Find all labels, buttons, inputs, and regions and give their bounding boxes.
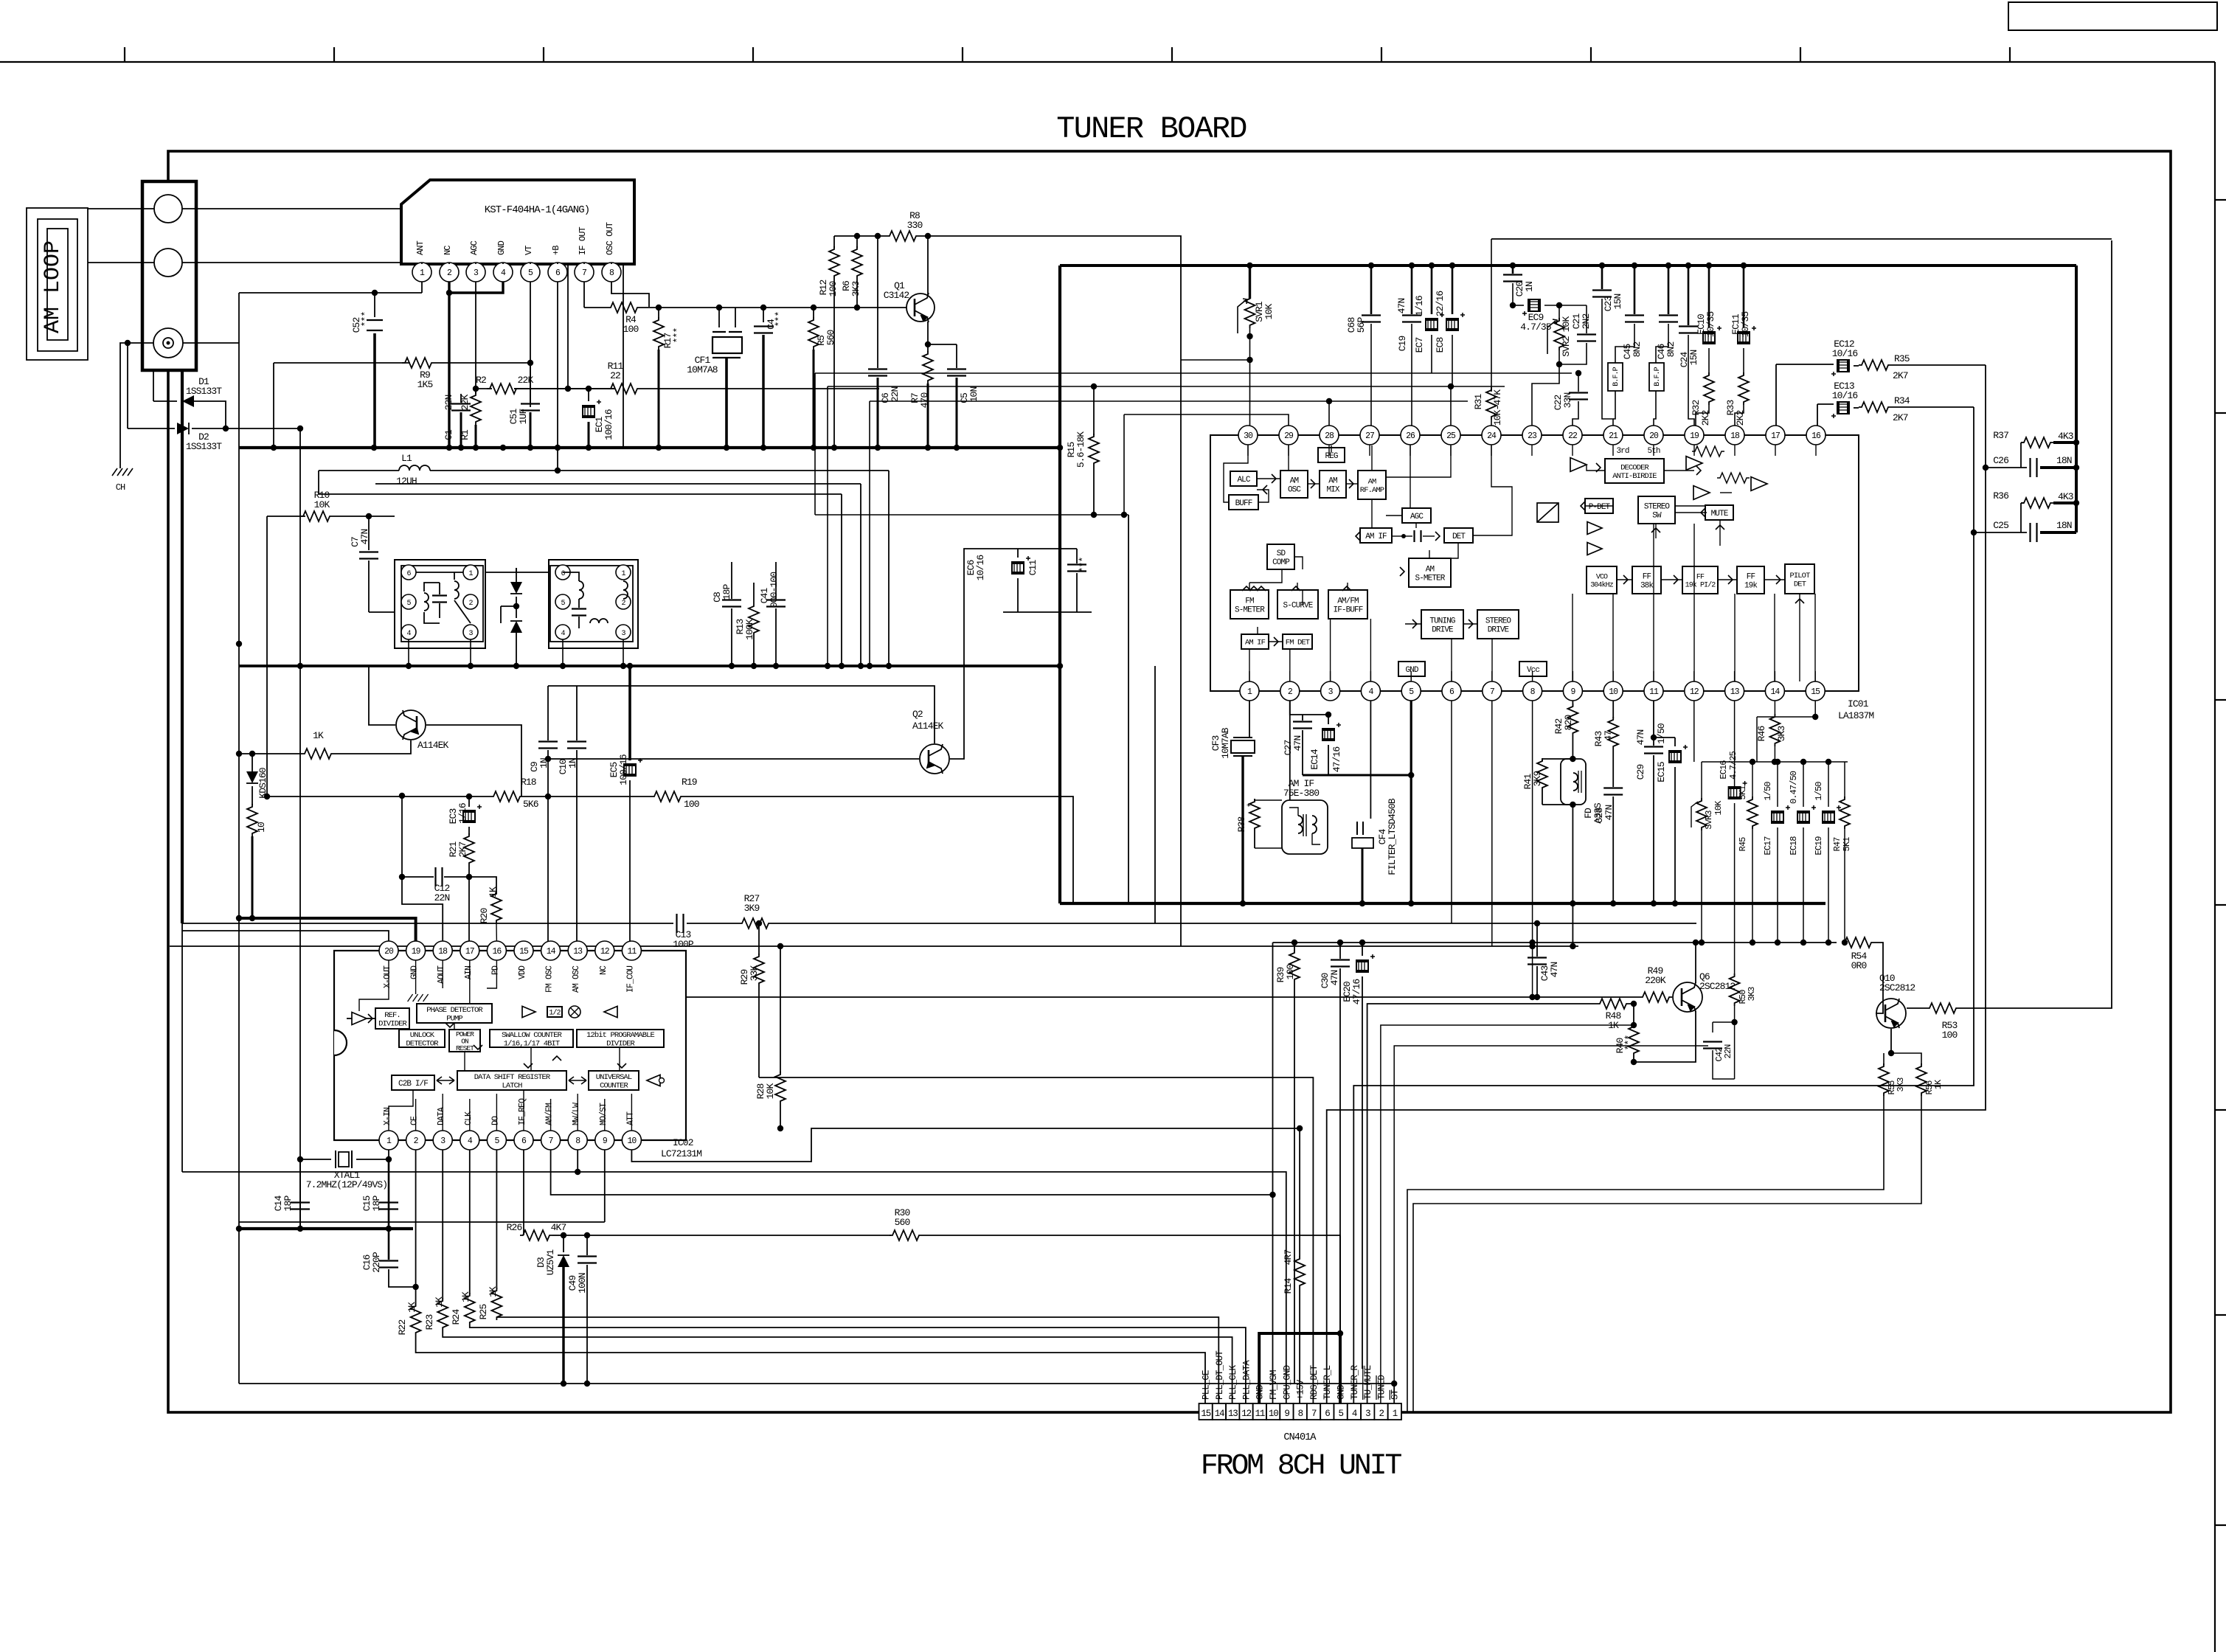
resistor R46 3K3 bbox=[1774, 701, 1775, 715]
resistor R34 2K7 bbox=[1854, 407, 1859, 409]
capacitor EC16 4.7/25 electrolytic bbox=[1734, 701, 1736, 787]
resistor R37 4K3 bbox=[2021, 442, 2024, 443]
capacitor C21 2N2 bbox=[1586, 305, 1587, 333]
IC01 block FF 19k PI/2 bbox=[1682, 566, 1718, 594]
resistor R20 1K bbox=[469, 877, 496, 894]
svg-text:RF.AMP: RF.AMP bbox=[1360, 486, 1384, 495]
IC01 block REG bbox=[1318, 448, 1345, 462]
svg-text:DRIVE: DRIVE bbox=[1432, 625, 1454, 634]
IC01 pin 12 bbox=[1685, 681, 1704, 701]
svg-text:CPU_GND: CPU_GND bbox=[1282, 1365, 1292, 1400]
svg-text:4R7: 4R7 bbox=[1283, 1250, 1294, 1266]
svg-text:18P: 18P bbox=[282, 1195, 294, 1212]
wire jack pin1 right bbox=[182, 209, 623, 448]
svg-text:NC: NC bbox=[599, 965, 608, 975]
wire Q3 collector up bbox=[369, 666, 395, 725]
svg-text:EC7: EC7 bbox=[1414, 338, 1425, 353]
svg-text:R35: R35 bbox=[1894, 353, 1910, 364]
svg-text:1N: 1N bbox=[567, 758, 578, 768]
svg-text:SVR2: SVR2 bbox=[1561, 336, 1572, 357]
IC01 block VCO 304kHz bbox=[1587, 566, 1617, 594]
svg-text:470: 470 bbox=[919, 393, 930, 409]
wire can pin stubs to bus bbox=[408, 639, 409, 666]
resistor R6 3K3 bbox=[856, 236, 858, 248]
resistor R54 0R0 bbox=[1842, 937, 1874, 948]
IC01 block AM MIX bbox=[1320, 471, 1346, 498]
fold tick 10 bbox=[2009, 47, 2011, 62]
resistor R21 2K7 bbox=[464, 833, 474, 866]
svg-text:220P: 220P bbox=[371, 1252, 382, 1273]
wire connector RDS_DET column bbox=[759, 1077, 1313, 1403]
wire xtal columns bbox=[388, 1150, 389, 1159]
wire IC01 pin5 down thick bbox=[1410, 701, 1412, 903]
svg-text:1K: 1K bbox=[406, 1302, 417, 1313]
svg-text:R46: R46 bbox=[1756, 726, 1767, 742]
svg-text:4: 4 bbox=[1352, 1409, 1357, 1419]
IC01 block MUTE bbox=[1705, 505, 1733, 520]
svg-text:15: 15 bbox=[1201, 1409, 1210, 1419]
wire KST pin3 down bbox=[475, 282, 476, 394]
svg-text:R26: R26 bbox=[507, 1222, 522, 1233]
svg-text:***: *** bbox=[1078, 558, 1089, 573]
wire KST pin4 down bbox=[449, 282, 503, 293]
capacitor C30 47N bbox=[1339, 943, 1341, 959]
wire Q3 emitter to R18 row bbox=[426, 725, 521, 796]
ground CH bbox=[112, 468, 133, 476]
wire jack column down bbox=[181, 370, 184, 923]
svg-text:+15V: +15V bbox=[1296, 1379, 1306, 1400]
capacitor EC3 1/16 electrolytic bbox=[468, 796, 470, 807]
svg-text:1SS133T: 1SS133T bbox=[186, 386, 222, 397]
wire IC02 pin9 MO/ST bbox=[604, 1150, 606, 1222]
IC02 block SWALLOW COUNTER bbox=[490, 1030, 573, 1047]
IC02 double arrow right bbox=[569, 1077, 586, 1084]
wire verticals to can bus bbox=[888, 471, 890, 666]
svg-text:15: 15 bbox=[519, 947, 529, 957]
svg-text:4.7/35: 4.7/35 bbox=[1520, 322, 1551, 333]
resistor R31 10K-47K bbox=[1491, 239, 1492, 392]
svg-text:RDS_DET: RDS_DET bbox=[1309, 1364, 1320, 1400]
capacitor C13 100P bbox=[677, 914, 684, 933]
svg-text:UZ5V1: UZ5V1 bbox=[545, 1249, 556, 1276]
ceramic filter CF1 10M7A8 bbox=[718, 308, 720, 327]
svg-text:1K5: 1K5 bbox=[417, 379, 433, 390]
svg-text:2SC2812: 2SC2812 bbox=[1879, 982, 1915, 993]
svg-text:MW/LW: MW/LW bbox=[572, 1103, 581, 1125]
resistor R42 820 bbox=[1572, 701, 1573, 707]
svg-text:LA1837M: LA1837M bbox=[1838, 710, 1873, 721]
svg-text:SWALLOW COUNTER: SWALLOW COUNTER bbox=[502, 1031, 563, 1040]
fold tick 9 bbox=[1800, 47, 1801, 62]
svg-text:19k PI/2: 19k PI/2 bbox=[1685, 581, 1716, 590]
svg-text:2K2: 2K2 bbox=[1735, 411, 1746, 426]
IC02 pin 18 AOUT bbox=[433, 941, 452, 960]
svg-text:10: 10 bbox=[627, 1136, 637, 1146]
svg-text:18: 18 bbox=[438, 947, 448, 957]
svg-text:CH: CH bbox=[116, 482, 125, 493]
IC01 block DECODER ANTI-BIRDIE bbox=[1605, 459, 1664, 483]
svg-text:4.7/25: 4.7/25 bbox=[1728, 751, 1738, 780]
fold tick 6 bbox=[1171, 47, 1173, 62]
svg-text:27: 27 bbox=[1365, 431, 1374, 441]
svg-text:GND: GND bbox=[410, 965, 420, 979]
svg-text:000-100: 000-100 bbox=[769, 572, 780, 608]
resistor R39 100 bbox=[1294, 943, 1295, 951]
CN401A pin 8 +15V bbox=[1294, 1403, 1307, 1420]
svg-text:30: 30 bbox=[1244, 431, 1253, 441]
wire left column x324 bbox=[238, 448, 240, 1384]
wire mid trunk y1225 thick bbox=[1060, 902, 1825, 905]
IC02 pin 15 VDD bbox=[514, 941, 533, 960]
CN401A pin 1 ST bbox=[1388, 1403, 1401, 1420]
wire AM loop to jack bbox=[88, 208, 154, 209]
wire node column x407 bbox=[299, 428, 301, 1229]
wire L1 left drop bbox=[319, 471, 322, 494]
svg-text:GND: GND bbox=[496, 240, 507, 255]
wire KST pin6 +B down bbox=[557, 282, 558, 471]
IC01 res glyph near pin19 bbox=[1692, 446, 1724, 457]
wire EC6 C11 bbox=[1003, 611, 1092, 613]
svg-text:AM/FM: AM/FM bbox=[545, 1103, 555, 1125]
capacitor C12 22N bbox=[401, 796, 403, 877]
svg-text:1: 1 bbox=[1393, 1409, 1398, 1419]
svg-text:FILTER_LTSD450B: FILTER_LTSD450B bbox=[1387, 798, 1398, 875]
capacitor C9 1N bbox=[547, 686, 549, 740]
IC01 pin 8 bbox=[1523, 681, 1542, 701]
svg-text:S-METER: S-METER bbox=[1415, 574, 1446, 583]
svg-text:9: 9 bbox=[1284, 1409, 1289, 1419]
resistor R40 *** bbox=[1633, 1004, 1634, 1025]
svg-text:AGC: AGC bbox=[1410, 513, 1424, 521]
resistor R7 470 bbox=[927, 344, 929, 353]
resistor R22 1K bbox=[415, 1150, 417, 1305]
wire R8 line to frame corner bbox=[919, 236, 1181, 360]
svg-text:12: 12 bbox=[1690, 687, 1699, 697]
wire R8 row y320 bbox=[834, 235, 887, 237]
svg-text:P-DET: P-DET bbox=[1589, 503, 1611, 512]
svg-text:1/16: 1/16 bbox=[1414, 296, 1425, 316]
svg-text:PLL_CE: PLL_CE bbox=[1202, 1370, 1212, 1400]
wire D1 D2 left drops bbox=[153, 370, 154, 401]
IC01 block FF 19k bbox=[1737, 566, 1764, 594]
wire connector GND thick bbox=[1259, 1333, 1340, 1403]
IC02 pin 16 PD bbox=[487, 941, 506, 960]
IC01 pin 9 bbox=[1563, 681, 1582, 701]
schematic outer border bbox=[168, 151, 2171, 1412]
svg-text:0.47/50: 0.47/50 bbox=[1789, 771, 1799, 804]
svg-text:7: 7 bbox=[549, 1136, 553, 1146]
transistor Q1 C3142 bbox=[906, 293, 935, 322]
svg-text:15N: 15N bbox=[1612, 294, 1623, 310]
resistor 1K at Q3 base bbox=[302, 749, 334, 759]
svg-text:MO/ST: MO/ST bbox=[599, 1103, 608, 1125]
svg-text:18N: 18N bbox=[2056, 455, 2072, 466]
resistor R35 2K7 bbox=[1854, 365, 1859, 367]
IC01 internal wires 2 bbox=[1224, 445, 1248, 502]
IC02 pin 1 X-IN bbox=[379, 1131, 398, 1150]
wire KST pin2 down bbox=[448, 282, 450, 448]
svg-text:AM IF: AM IF bbox=[1245, 639, 1266, 648]
resistor R9 1K5 bbox=[274, 362, 410, 364]
svg-text:19: 19 bbox=[1690, 431, 1699, 441]
wire bundle line y524 bbox=[828, 386, 1505, 387]
wire jack pin2 right bbox=[182, 263, 568, 389]
IC02 pin 8 MW/LW bbox=[568, 1131, 587, 1150]
CN401A pin 4 TUNER_R bbox=[1348, 1403, 1361, 1420]
capacitor C68 56P bbox=[1370, 265, 1373, 314]
svg-text:14: 14 bbox=[547, 947, 556, 957]
resistor R36 4K3 bbox=[2021, 502, 2024, 504]
svg-text:33N: 33N bbox=[1562, 393, 1573, 409]
CN401A pin 12 PLL_DATA bbox=[1239, 1403, 1252, 1420]
svg-text:C29: C29 bbox=[1635, 765, 1646, 780]
IC02 block POWER ON RESET bbox=[449, 1030, 480, 1052]
svg-text:R37: R37 bbox=[1993, 430, 2008, 441]
IC02 internal wires bbox=[359, 960, 389, 1011]
filter B.F.P 1 bbox=[1608, 363, 1623, 391]
svg-text:5K1: 5K1 bbox=[1842, 837, 1852, 852]
svg-text:17: 17 bbox=[1771, 431, 1780, 441]
fold tick 1 bbox=[124, 47, 125, 62]
IC01 pin 7 bbox=[1483, 681, 1502, 701]
svg-text:REG: REG bbox=[1325, 452, 1337, 461]
IC01 block FM S-METER bbox=[1230, 590, 1269, 619]
FM/AM IF+MPX IC01 LA1837M body bbox=[1210, 435, 1859, 691]
capacitor EC11 10/35 electrolytic bbox=[1743, 265, 1745, 327]
svg-text:TUNER_R: TUNER_R bbox=[1350, 1364, 1360, 1400]
svg-text:LATCH: LATCH bbox=[502, 1081, 522, 1090]
svg-text:***: *** bbox=[672, 328, 683, 344]
crystal filter FD A33S bbox=[1561, 759, 1586, 805]
svg-text:RESET: RESET bbox=[456, 1044, 474, 1052]
IC02 pin 9 MO/ST bbox=[595, 1131, 614, 1150]
svg-text:COMP: COMP bbox=[1272, 558, 1290, 567]
right margin tick 3 bbox=[2215, 699, 2226, 701]
wire Q2 leads bbox=[548, 758, 919, 760]
IC01 pin 18 bbox=[1725, 426, 1744, 445]
svg-text:DO: DO bbox=[490, 1116, 500, 1125]
svg-text:47N: 47N bbox=[1635, 730, 1646, 746]
svg-text:LC72131M: LC72131M bbox=[661, 1148, 701, 1159]
svg-text:AM: AM bbox=[1426, 565, 1435, 574]
svg-text:C26: C26 bbox=[1993, 455, 2008, 466]
svg-text:DIVIDER: DIVIDER bbox=[378, 1019, 407, 1028]
CN401A pin 11 GND bbox=[1253, 1403, 1266, 1420]
svg-text:4K3: 4K3 bbox=[2058, 431, 2073, 442]
svg-text:AM LOOP: AM LOOP bbox=[41, 240, 66, 333]
resistor R11 22 bbox=[608, 383, 640, 394]
resistor R17 *** bbox=[656, 305, 662, 310]
zener diode D3 UZ5V1 bbox=[563, 1235, 564, 1252]
svg-text:SD: SD bbox=[1277, 549, 1286, 558]
resistor R43 47 bbox=[1612, 701, 1614, 718]
svg-text:14: 14 bbox=[1770, 687, 1780, 697]
capacitor C8 18P bbox=[731, 562, 732, 599]
svg-text:25: 25 bbox=[1446, 431, 1456, 441]
svg-text:0R0: 0R0 bbox=[1851, 960, 1867, 971]
capacitor EC8 22/16 electrolytic bbox=[1452, 265, 1454, 314]
svg-text:Q2: Q2 bbox=[912, 709, 923, 720]
CN401A pin 3 TU_MUTE bbox=[1361, 1403, 1374, 1420]
right margin tick 6 bbox=[2215, 1314, 2226, 1316]
svg-text:S-METER: S-METER bbox=[1235, 605, 1265, 614]
svg-text:IC01: IC01 bbox=[1848, 698, 1869, 709]
svg-text:8: 8 bbox=[1298, 1409, 1303, 1419]
wire IC02 pin7 AM/FM bbox=[551, 1150, 1273, 1195]
svg-text:100P: 100P bbox=[673, 939, 694, 950]
svg-text:12UH: 12UH bbox=[396, 476, 417, 487]
IC02 pin 7 AM/FM bbox=[541, 1131, 561, 1150]
svg-text:10K: 10K bbox=[1263, 304, 1275, 320]
wire row y656 bbox=[375, 483, 861, 485]
svg-text:330: 330 bbox=[907, 220, 923, 231]
svg-text:47N: 47N bbox=[1292, 736, 1303, 752]
IC01 block AM IF 2 bbox=[1241, 634, 1269, 649]
IC01 pin 2 bbox=[1280, 681, 1300, 701]
svg-text:1/50: 1/50 bbox=[1814, 782, 1824, 801]
IC01 block STEREO DRIVE bbox=[1477, 610, 1519, 639]
svg-text:R22: R22 bbox=[397, 1320, 408, 1336]
resistor R38 * bbox=[1254, 800, 1255, 802]
svg-text:MUTE: MUTE bbox=[1711, 510, 1729, 518]
svg-text:10/16: 10/16 bbox=[1832, 348, 1858, 359]
IC01 block AM OSC bbox=[1280, 471, 1308, 498]
svg-text:1SS133T: 1SS133T bbox=[186, 441, 222, 452]
IC01 block arrows bbox=[1272, 474, 1276, 483]
wire C27 EC14 bottom bbox=[1303, 774, 1411, 777]
svg-text:100/16: 100/16 bbox=[603, 409, 614, 440]
CN401A pin 9 CPU_GND bbox=[1280, 1403, 1293, 1420]
svg-text:BUFF: BUFF bbox=[1235, 499, 1252, 508]
wire can area bottom bus bbox=[239, 664, 1060, 667]
resistor R18 5K6 bbox=[267, 796, 490, 797]
wire node line y397 bbox=[239, 292, 422, 294]
svg-text:18N: 18N bbox=[2056, 520, 2072, 531]
svg-text:220K: 220K bbox=[1645, 975, 1666, 986]
svg-text:2N2: 2N2 bbox=[1581, 314, 1592, 330]
wire bus dots y1225 bbox=[1240, 900, 1246, 906]
wire mid trunk y1252 bbox=[182, 923, 673, 924]
svg-text:R34: R34 bbox=[1894, 395, 1910, 406]
svg-text:DECODER: DECODER bbox=[1620, 463, 1649, 472]
svg-text:3K3: 3K3 bbox=[1776, 726, 1787, 742]
wire IC02 pin8 MW/LW bbox=[578, 1150, 1286, 1403]
wire Q1 emitter bbox=[928, 322, 957, 344]
variable resistor SVR1 10K bbox=[1249, 265, 1251, 299]
resistor R32 2K2 bbox=[1708, 365, 1710, 375]
resistor R13 100K bbox=[749, 603, 759, 636]
svg-text:16: 16 bbox=[492, 947, 502, 957]
svg-text:B.F.P: B.F.P bbox=[1654, 367, 1662, 386]
resistor R45 5K1 bbox=[1752, 762, 1753, 798]
wire TUNED pin to R40 bbox=[1381, 1025, 1634, 1403]
svg-text:5.6-18K: 5.6-18K bbox=[1075, 431, 1086, 468]
svg-text:6: 6 bbox=[1325, 1409, 1330, 1419]
diode D2 1SS133T bbox=[128, 428, 175, 429]
IC01 block GND bbox=[1398, 662, 1425, 676]
IC02 pin 17 AIN bbox=[460, 941, 479, 960]
capacitor EC17 1/50 electrolytic bbox=[1777, 762, 1778, 807]
svg-text:10K: 10K bbox=[765, 1083, 776, 1100]
wire pin25 stub bbox=[1450, 386, 1452, 426]
svg-text:10: 10 bbox=[1609, 687, 1618, 697]
svg-text:R18: R18 bbox=[521, 777, 536, 788]
svg-text:TU_MUTE: TU_MUTE bbox=[1363, 1365, 1373, 1400]
capacitor C23 15N bbox=[1601, 265, 1603, 289]
svg-text:ATT: ATT bbox=[625, 1111, 635, 1125]
IC02 pin 3 DATA bbox=[433, 1131, 452, 1150]
svg-text:100N: 100N bbox=[577, 1273, 588, 1294]
variable resistor SVR3 10K bbox=[1701, 762, 1702, 801]
wire KST pin1 down bbox=[421, 282, 423, 293]
svg-text:IF OUT: IF OUT bbox=[578, 226, 588, 255]
diode KDS160 bbox=[252, 754, 253, 771]
tuner block KST-F404HA-1(4GANG) bbox=[401, 180, 634, 264]
svg-text:GND: GND bbox=[1405, 666, 1418, 675]
wire rail y972 bbox=[1757, 716, 1815, 718]
svg-text:AM: AM bbox=[1368, 477, 1376, 486]
resistor R25 1K bbox=[496, 1150, 497, 1289]
svg-text:X-IN: X-IN bbox=[383, 1108, 392, 1125]
svg-text:PD: PD bbox=[490, 965, 500, 975]
IC02 double arrow left bbox=[437, 1077, 454, 1084]
svg-text:47N: 47N bbox=[1329, 971, 1340, 986]
svg-text:DET: DET bbox=[1452, 532, 1466, 541]
wire jack shield right bbox=[183, 343, 239, 448]
svg-text:C11: C11 bbox=[1027, 560, 1039, 576]
capacitor EC5 100/16 electrolytic bbox=[628, 666, 631, 760]
IC02 pin 4 CLK bbox=[460, 1131, 479, 1150]
svg-text:38k: 38k bbox=[1640, 581, 1654, 590]
svg-text:3: 3 bbox=[1365, 1409, 1370, 1419]
wire col x1566 bbox=[1154, 666, 1156, 923]
wire right loop x2815 thick bbox=[2075, 265, 2078, 532]
svg-text:5K6: 5K6 bbox=[523, 799, 538, 810]
svg-text:10K: 10K bbox=[314, 499, 330, 510]
IC01 pin 21 bbox=[1603, 426, 1623, 445]
svg-text:GND: GND bbox=[1336, 1385, 1347, 1400]
svg-text:47: 47 bbox=[1603, 731, 1614, 741]
IC01 pin 30 bbox=[1238, 426, 1258, 445]
capacitor C7 47N bbox=[368, 516, 370, 550]
svg-text:ANTI-BIRDIE: ANTI-BIRDIE bbox=[1612, 472, 1657, 481]
IC01 pin 13 bbox=[1725, 681, 1744, 701]
svg-text:EC16: EC16 bbox=[1719, 760, 1729, 780]
IC01 cap between AM IF and DET bbox=[1415, 530, 1421, 542]
wire R31 top line y324 bbox=[1491, 238, 2112, 240]
svg-text:AM: AM bbox=[1290, 476, 1299, 485]
svg-text:EC18: EC18 bbox=[1789, 836, 1799, 855]
wire thick rail y360 bbox=[1060, 264, 2076, 267]
IC01 pin 3 bbox=[1321, 681, 1340, 701]
CN401A pin 15 PLL_CE bbox=[1199, 1403, 1213, 1420]
svg-text:8N2: 8N2 bbox=[1632, 342, 1643, 358]
svg-text:C25: C25 bbox=[1993, 520, 2008, 531]
svg-text:CN401A: CN401A bbox=[1283, 1432, 1317, 1443]
svg-text:47N: 47N bbox=[1396, 299, 1407, 314]
title block box top-right bbox=[2008, 2, 2217, 30]
svg-text:R14: R14 bbox=[1283, 1278, 1294, 1294]
svg-text:28: 28 bbox=[1325, 431, 1334, 441]
svg-text:15N: 15N bbox=[1688, 350, 1699, 366]
wire pin28 stub bbox=[1328, 400, 1330, 426]
wire mid trunk y1283 bbox=[170, 945, 1578, 947]
capacitor C28 47N bbox=[1603, 788, 1623, 795]
svg-text:1K: 1K bbox=[488, 1286, 499, 1297]
svg-text:PLL_DATA: PLL_DATA bbox=[1241, 1360, 1252, 1400]
IC01 pin 24 bbox=[1482, 426, 1501, 445]
IC02 pin 10 ATT bbox=[622, 1131, 641, 1150]
